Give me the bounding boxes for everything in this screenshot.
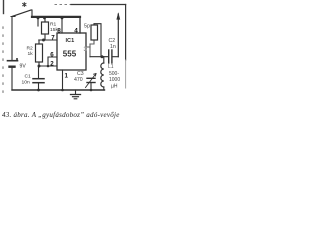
capacitor C2 — [108, 50, 110, 63]
wire pin2/pin6 bracket — [39, 57, 57, 66]
svg-text:1000: 1000 — [109, 77, 120, 83]
resistor R2 — [38, 40, 40, 44]
ground symbol — [75, 90, 77, 94]
svg-text:10n: 10n — [22, 79, 30, 85]
svg-text:2: 2 — [50, 61, 54, 68]
svg-text:9V: 9V — [20, 64, 27, 70]
wire to pin 7 — [39, 39, 57, 41]
resistor R1 — [44, 18, 46, 22]
wire bottom ground rail — [12, 89, 105, 91]
node dot tank — [101, 55, 104, 58]
svg-text:6: 6 — [50, 52, 54, 59]
svg-text:470: 470 — [74, 77, 83, 83]
battery B1 — [8, 60, 18, 62]
svg-text:43. ábra. A „gyufásdoboz” adó-: 43. ábra. A „gyufásdoboz” adó-vevője — [2, 111, 120, 119]
svg-text:15k: 15k — [50, 27, 58, 33]
node stub on rail — [37, 18, 39, 26]
wire pin8 drop — [61, 17, 63, 33]
svg-text:555: 555 — [63, 50, 77, 59]
svg-text:8: 8 — [57, 28, 61, 35]
svg-text:L1: L1 — [108, 64, 114, 70]
frame top dotted segment — [55, 4, 71, 6]
svg-text:7: 7 — [51, 35, 55, 42]
switch contact stub — [31, 10, 33, 17]
frame right border — [125, 5, 127, 61]
svg-text:R2: R2 — [27, 46, 34, 52]
resistor R3 — [91, 25, 98, 40]
frame top solid — [71, 4, 126, 6]
node dot A — [37, 17, 40, 20]
svg-text:1k: 1k — [28, 51, 34, 57]
node dot bracket — [47, 65, 50, 68]
svg-text:5p: 5p — [84, 24, 90, 30]
node dot pin7 junction — [42, 39, 45, 42]
svg-text:1: 1 — [65, 73, 69, 80]
op-amp U1 : IC1 555 timer box — [57, 33, 86, 70]
wire pin3 stub — [86, 46, 90, 48]
svg-text:R1: R1 — [50, 22, 57, 28]
battery plus dot — [16, 58, 18, 60]
switch lever — [12, 10, 31, 17]
svg-text:1n: 1n — [110, 44, 116, 50]
page border left (solid top part) — [3, 0, 5, 14]
node dot C — [61, 17, 64, 20]
node dot B — [43, 17, 46, 20]
inductor L1 coil — [103, 57, 105, 63]
antenna wire — [117, 14, 119, 57]
antenna arrowhead — [116, 12, 120, 19]
svg-text:C1: C1 — [25, 74, 32, 80]
node dot pin1 bottom — [61, 89, 64, 92]
node dot pin2 junction — [38, 65, 41, 68]
svg-text:IC1: IC1 — [66, 38, 75, 44]
wire pin3 corner to R3 — [90, 41, 94, 45]
wire pin4 drop — [79, 17, 81, 33]
wire R3 top over and down — [94, 24, 101, 57]
node dot trimmer bottom — [90, 89, 93, 92]
wire tank node — [90, 56, 108, 58]
wire pin3 node drop — [89, 44, 91, 57]
svg-text:4: 4 — [74, 28, 78, 35]
capacitor C1 — [38, 66, 40, 78]
svg-text:µH: µH — [111, 84, 118, 90]
wire pin1 drop — [62, 70, 64, 90]
wire battery plus riser — [11, 17, 15, 61]
switch actuator star — [23, 3, 26, 7]
wire top supply rail — [32, 16, 80, 18]
page border left dotted — [2, 27, 4, 98]
node dot C1 bottom — [37, 89, 40, 92]
trimmer capacitor C3 — [87, 77, 95, 79]
